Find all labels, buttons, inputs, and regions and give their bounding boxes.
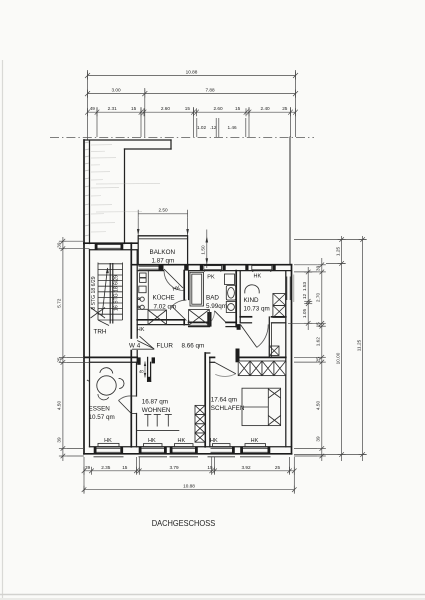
svg-text:4.50: 4.50: [57, 401, 62, 411]
outer right wall: [291, 265, 293, 454]
svg-text:25: 25: [316, 357, 321, 363]
vestibule wall stub: [147, 357, 149, 381]
BAD bottom wall: [189, 321, 210, 323]
right dimension chain C 11.25: [362, 236, 364, 461]
ESSEN door swing: [131, 396, 136, 414]
svg-text:15: 15: [316, 322, 321, 328]
staircase top wall: [84, 242, 137, 244]
dimension sub-row 1.02 12 1.46: [197, 118, 246, 137]
svg-text:2.40: 2.40: [261, 106, 271, 111]
svg-text:1.62: 1.62: [316, 337, 321, 347]
KIND niche partition wall: [268, 317, 270, 357]
left dimension chain: [62, 237, 64, 461]
svg-text:2.50: 2.50: [158, 207, 168, 212]
svg-text:10.73 qm: 10.73 qm: [244, 305, 270, 312]
balcony width dim 2.50: [138, 213, 187, 215]
main top wall: [131, 264, 291, 266]
KIND basin arc: [245, 285, 259, 294]
ESSEN dining table: [97, 376, 116, 395]
svg-text:7.88: 7.88: [205, 87, 215, 92]
svg-text:5.99qm: 5.99qm: [206, 303, 227, 310]
terrace top edge line: [84, 139, 171, 141]
svg-text:7.02 qm: 7.02 qm: [154, 303, 177, 310]
post at balcony door right / kitchen wall head: [184, 265, 188, 271]
shaft x-box at FLUR top: [189, 310, 210, 326]
right dimension chain A: [321, 258, 323, 461]
door width dim 40: [144, 361, 146, 377]
bottom wall window SCHLAFEN 2: [243, 448, 268, 452]
svg-text:15: 15: [207, 465, 213, 470]
BAD shower: [190, 272, 204, 306]
WOHNEN / SCHLAFEN wall: [204, 353, 206, 447]
BAD appliance box: [225, 274, 235, 285]
kitchen window in top wall: [139, 266, 159, 269]
outer bottom wall: [84, 453, 292, 455]
BAD door jamb post: [207, 312, 211, 327]
terrace floor faint hatching: [91, 145, 160, 232]
SCHLAFEN bed: [242, 388, 281, 425]
terrace right boundary line: [289, 137, 291, 265]
extension lines to chains B and C: [294, 240, 367, 455]
svg-text:10.88: 10.88: [186, 70, 198, 75]
svg-text:8 STG 18 6/29: 8 STG 18 6/29: [91, 276, 97, 309]
svg-text:11.25: 11.25: [356, 339, 361, 351]
svg-text:3.00: 3.00: [111, 87, 121, 92]
bottom chain row 39 2.35 15 3.79 15 3.92 25: [84, 470, 295, 472]
svg-text:HK: HK: [177, 438, 185, 444]
dimension row 49 2.31 15 2.60 15 2.60 15 2.40 25: [87, 111, 296, 113]
svg-text:BALKON: BALKON: [150, 249, 176, 256]
svg-text:BAD: BAD: [206, 295, 219, 302]
svg-text:1.50: 1.50: [201, 245, 206, 255]
svg-text:10.88: 10.88: [183, 484, 195, 489]
svg-text:15: 15: [185, 106, 191, 111]
svg-text:17.64 qm: 17.64 qm: [211, 396, 237, 403]
SCHLAFEN door swing: [215, 363, 236, 374]
bottom wall window WOHNEN 2: [173, 448, 196, 452]
entry door leaf into FLUR: [137, 341, 154, 349]
KIND bottom wall: [240, 316, 251, 318]
bottom wall window SCHLAFEN 1: [211, 448, 233, 452]
KIND door post: [237, 324, 241, 330]
svg-text:1.25: 1.25: [335, 247, 340, 257]
paper bottom edge shadow: [0, 594, 425, 596]
svg-text:39: 39: [57, 437, 62, 443]
svg-text:2.60: 2.60: [161, 106, 171, 111]
wall hatch marks: [85, 142, 90, 236]
PK window in top wall: [204, 266, 222, 270]
dimension row 10.88: [87, 75, 296, 77]
staircase right wall: [130, 243, 132, 338]
BAD basin: [226, 286, 235, 301]
svg-text:2.70: 2.70: [316, 293, 321, 303]
svg-text:1.53: 1.53: [302, 282, 307, 292]
stair top wall window: [98, 245, 121, 249]
svg-text:2.31: 2.31: [108, 106, 118, 111]
svg-text:1.02: 1.02: [197, 125, 207, 130]
dimension row 3.00 / 7.88: [87, 93, 296, 95]
kitchen chimney x-box: [148, 310, 167, 325]
paper left edge shadow: [2, 60, 4, 598]
stairs TRH flight edges: [97, 263, 99, 321]
svg-text:.12: .12: [210, 125, 217, 130]
svg-text:8.66 qm: 8.66 qm: [182, 342, 205, 349]
svg-text:15: 15: [131, 106, 137, 111]
svg-text:39: 39: [57, 242, 62, 248]
svg-text:4.50: 4.50: [316, 401, 321, 411]
right wall window sill: [293, 275, 295, 303]
BAD / KIND wall: [235, 271, 237, 327]
svg-text:25: 25: [275, 465, 281, 470]
stair treads: [98, 264, 123, 320]
svg-text:25: 25: [57, 357, 62, 363]
terrace left wall: [83, 140, 85, 244]
svg-text:3.79: 3.79: [169, 465, 179, 470]
svg-text:12: 12: [302, 294, 307, 300]
svg-text:HK: HK: [254, 274, 262, 280]
svg-text:SCHLAFEN: SCHLAFEN: [211, 405, 245, 412]
svg-text:HK: HK: [210, 438, 218, 444]
balcony door swing: [164, 269, 183, 288]
svg-text:1.46: 1.46: [227, 125, 237, 130]
SCHLAFEN closet x-boxes: [238, 361, 286, 376]
right wall window (KIND): [287, 277, 290, 301]
bottom wall window ESSEN: [97, 448, 121, 452]
SCHLAFEN door post: [236, 349, 240, 363]
svg-text:HK: HK: [148, 438, 156, 444]
svg-text:2.60: 2.60: [213, 106, 223, 111]
WOHNEN furniture posts: [137, 415, 180, 431]
svg-text:WOHNEN: WOHNEN: [142, 407, 171, 414]
svg-text:DACHGESCHOSS: DACHGESCHOSS: [152, 518, 216, 528]
SCHLAFEN top wall: [210, 356, 215, 358]
svg-text:5.72: 5.72: [57, 298, 62, 308]
svg-text:39: 39: [316, 436, 321, 442]
svg-text:PK: PK: [207, 275, 215, 281]
axis dash-dot line: [50, 136, 314, 138]
svg-text:FLUR: FLUR: [157, 342, 174, 349]
svg-text:W 4: W 4: [129, 343, 141, 350]
svg-text:KIND: KIND: [244, 297, 259, 304]
svg-text:16 STG 18 6/29: 16 STG 18 6/29: [113, 275, 119, 311]
svg-text:HK: HK: [251, 438, 259, 444]
stair walk line with arrow: [102, 268, 108, 316]
kitchen bottom wall: [137, 319, 184, 321]
svg-text:40: 40: [139, 369, 144, 374]
stair entry cross: [91, 308, 106, 319]
svg-text:HK: HK: [104, 438, 112, 444]
svg-text:HK: HK: [137, 327, 145, 333]
kitchen counter: [137, 271, 148, 310]
entry door posts W4: [137, 357, 140, 364]
svg-text:1.05: 1.05: [302, 309, 307, 319]
right inner dimension chain (KIND): [307, 267, 309, 330]
svg-text:15: 15: [122, 465, 128, 470]
KIND chimney x-boxes: [273, 294, 286, 306]
WOHNEN x-box column: [195, 405, 205, 442]
svg-text:39: 39: [85, 465, 91, 470]
svg-text:49: 49: [90, 106, 96, 111]
svg-text:25: 25: [282, 106, 288, 111]
right dimension chain B 1.25/10.00: [341, 236, 343, 461]
kitchen right wall: [183, 271, 185, 300]
svg-text:15: 15: [235, 106, 241, 111]
HK window radiator in top wall (KIND): [252, 266, 272, 270]
svg-text:16.87 qm: 16.87 qm: [142, 398, 168, 405]
svg-text:10.57 qm: 10.57 qm: [89, 414, 115, 421]
bottom wall window WOHNEN 1: [142, 448, 165, 452]
balcony depth dim 1.50: [206, 230, 208, 269]
svg-text:ESSEN: ESSEN: [89, 405, 111, 412]
KIND niche x-box: [269, 346, 279, 356]
svg-text:3.92: 3.92: [241, 465, 251, 470]
bottom extension lines: [84, 457, 294, 493]
extension lines from top dims: [88, 70, 296, 140]
outer left wall: [83, 244, 85, 454]
svg-text:1.87 qm: 1.87 qm: [152, 258, 175, 265]
svg-text:10.00: 10.00: [335, 352, 340, 364]
post between kitchen window and balcony door: [159, 265, 164, 271]
KIND door swing: [241, 325, 257, 348]
BAD door swing: [215, 311, 227, 323]
bottom chain 10.88: [84, 489, 295, 491]
ESSEN / WOHNEN wall: [130, 362, 132, 447]
svg-text:KÜCHE: KÜCHE: [153, 294, 175, 302]
svg-text:TRH: TRH: [94, 329, 107, 336]
svg-text:2.35: 2.35: [101, 465, 111, 470]
stair stringer / handrail: [109, 263, 111, 324]
TRH bottom / ESSEN top wall: [84, 356, 137, 358]
svg-text:39: 39: [316, 265, 321, 271]
kitchen door swing: [172, 306, 187, 320]
balcony outline: [138, 235, 187, 237]
terrace notch step: [170, 140, 172, 149]
BAD wc: [226, 302, 235, 313]
